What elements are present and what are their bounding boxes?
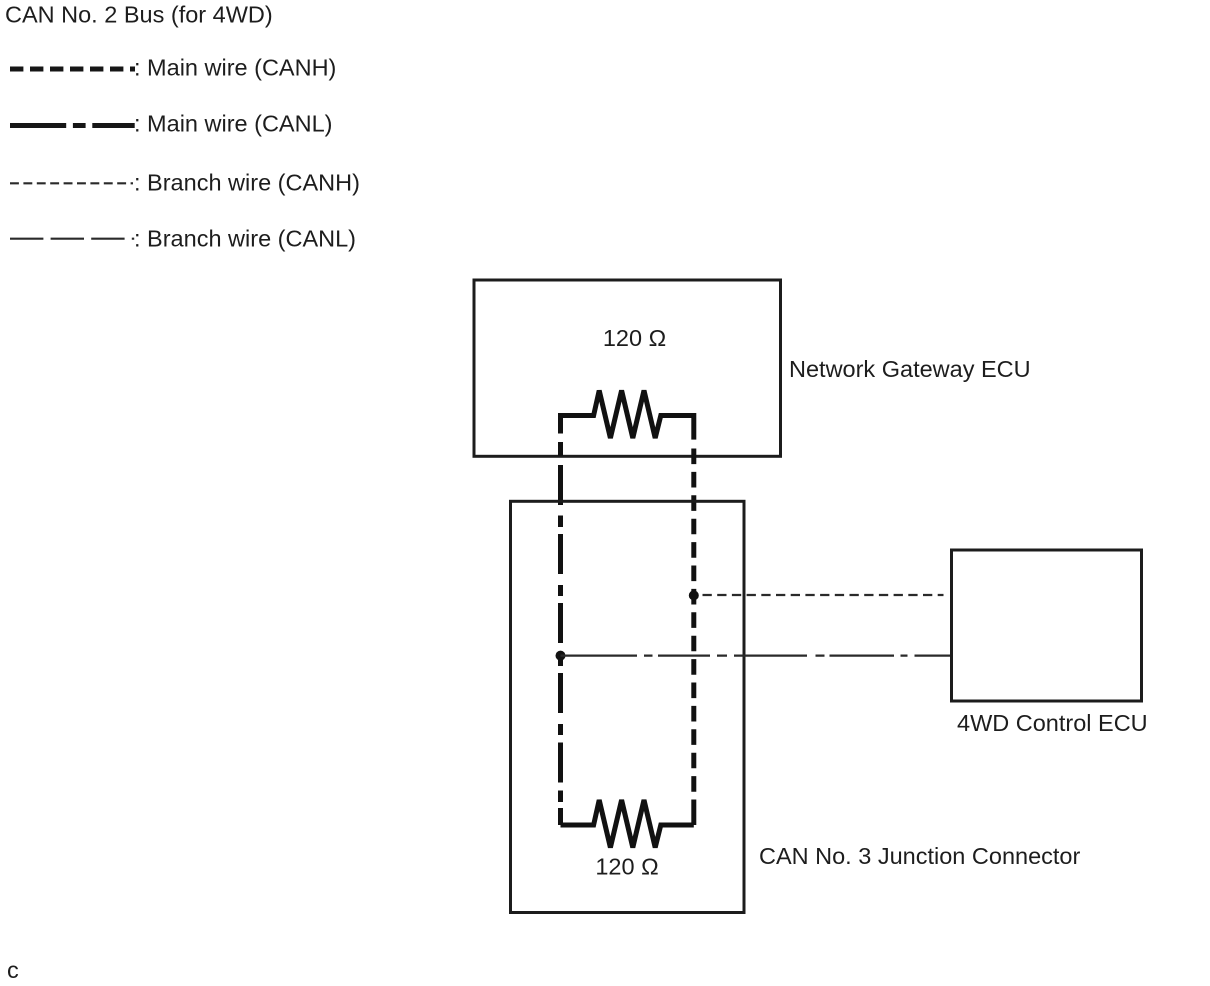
junction connector box: CAN No. 3 Junction Connector [511,501,745,912]
resistor R1 (120 ohm, inside Network Gateway ECU) [561,391,694,439]
wire: CANL main wire left vertical (dash-dot), from R1 left lead to R2 left lead [558,413,563,825]
svg-text:: Branch wire (CANH): : Branch wire (CANH) [134,170,360,196]
svg-text:: Main wire (CANL): : Main wire (CANL) [134,111,332,137]
legend sample: branch wire CANL (thin long dash-dot) [10,238,134,240]
svg-text:4WD Control ECU: 4WD Control ECU [957,710,1148,736]
svg-text:CAN No. 2 Bus (for 4WD): CAN No. 2 Bus (for 4WD) [5,2,273,28]
svg-text:: Main wire (CANH): : Main wire (CANH) [134,55,336,81]
resistor R2 (120 ohm, inside junction connector) [561,800,694,848]
legend sample: main wire CANH (thick dashed) [10,67,135,72]
legend sample: branch wire CANH (thin dashed) [10,182,133,184]
svg-text:Network Gateway ECU: Network Gateway ECU [789,356,1031,382]
legend sample: main wire CANL (thick long-short dash) [10,123,135,128]
wire: CANL branch wire (thin dash-dot) from node B to 4WD Control ECU [561,654,952,656]
svg-text:: Branch wire (CANL): : Branch wire (CANL) [134,226,356,252]
ECU box: 4WD Control ECU [952,550,1142,701]
svg-text:120 Ω: 120 Ω [595,854,658,880]
svg-text:CAN No. 3 Junction Connector: CAN No. 3 Junction Connector [759,843,1080,869]
wire: CANH branch wire (thin dashed) from node A to 4WD Control ECU [703,594,944,596]
node B: junction of CANL main wire and CANL branch wire [556,651,566,661]
wire: CANH main wire right vertical (dashed), from R1 right lead to R2 right lead [691,413,696,440]
node A: junction of CANH main wire and CANH branch wire [689,590,699,600]
svg-text:c: c [7,957,19,983]
svg-text:120 Ω: 120 Ω [603,325,666,351]
ECU box: Network Gateway ECU [474,280,781,456]
